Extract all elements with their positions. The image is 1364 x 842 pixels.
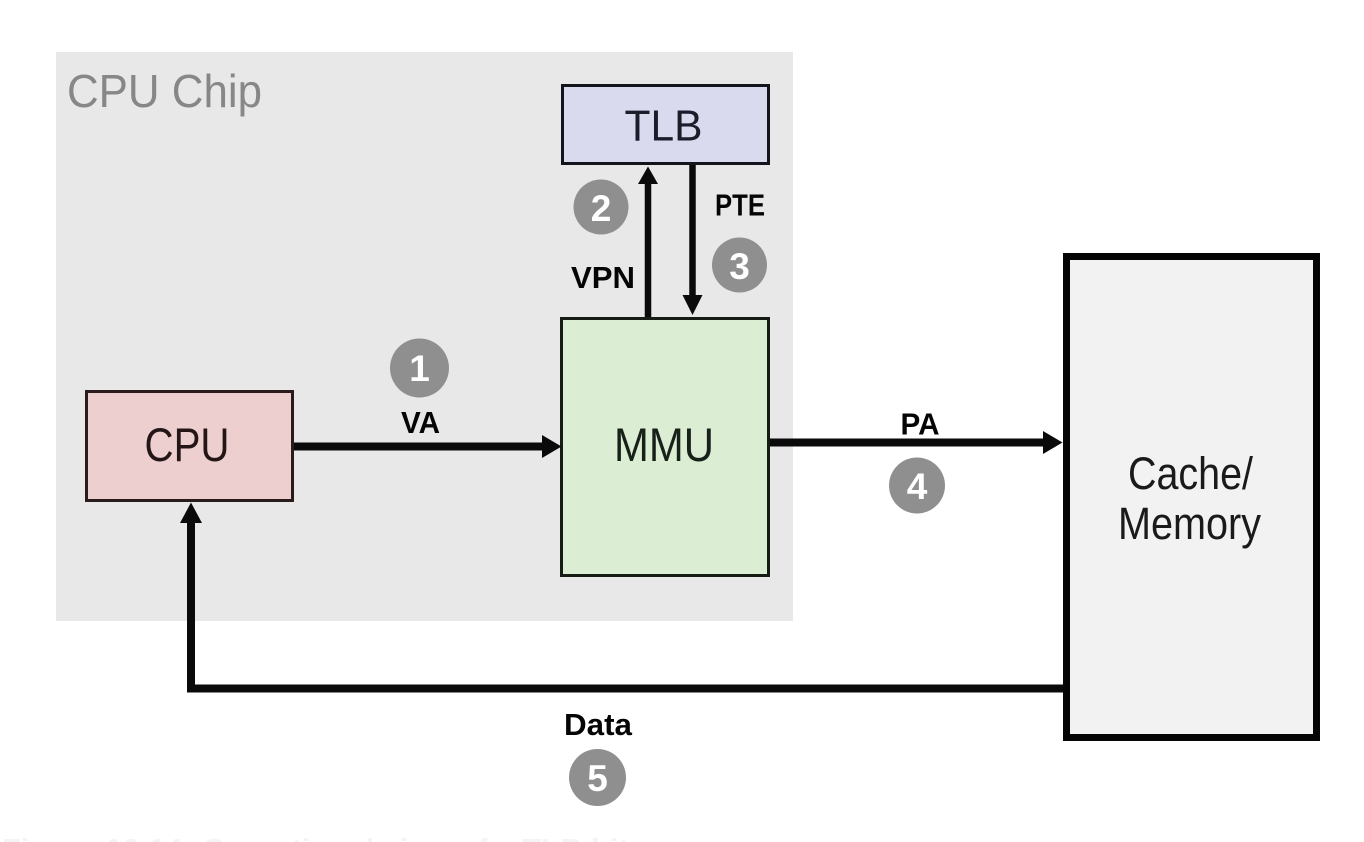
step 5 badge bbox=[569, 749, 626, 806]
MMU box bbox=[562, 319, 769, 576]
TLB box bbox=[563, 86, 769, 164]
step 3 badge bbox=[712, 238, 767, 293]
wire PA: MMU to Cache bbox=[770, 439, 1046, 447]
svg-text:4: 4 bbox=[907, 466, 928, 507]
svg-text:5: 5 bbox=[587, 758, 608, 799]
wire PTE: TLB down to MMU bbox=[689, 165, 696, 296]
svg-text:VA: VA bbox=[401, 405, 440, 440]
svg-text:Cache/: Cache/ bbox=[1128, 448, 1253, 499]
svg-text:MMU: MMU bbox=[614, 418, 714, 471]
svg-text:1: 1 bbox=[409, 348, 430, 389]
svg-text:2: 2 bbox=[591, 188, 612, 229]
wire Data: Cache to CPU bbox=[191, 521, 1063, 689]
step 1 badge bbox=[390, 339, 449, 398]
svg-text:CPU: CPU bbox=[145, 418, 230, 471]
svg-text:Memory: Memory bbox=[1118, 498, 1261, 549]
svg-text:VPN: VPN bbox=[571, 260, 635, 295]
svg-text:CPU Chip: CPU Chip bbox=[67, 65, 262, 117]
CPU chip region bbox=[56, 52, 793, 621]
svg-text:3: 3 bbox=[729, 246, 750, 287]
svg-text:TLB: TLB bbox=[625, 102, 703, 151]
svg-text:PTE: PTE bbox=[715, 188, 765, 223]
wire VPN: MMU up to TLB bbox=[645, 182, 652, 317]
svg-text:Figure 10.14: Operational view: Figure 10.14: Operational view of a TLB … bbox=[2, 832, 638, 842]
svg-text:Data: Data bbox=[564, 707, 633, 742]
step 2 badge bbox=[574, 180, 629, 235]
wire VA: CPU to MMU bbox=[294, 443, 545, 451]
step 4 badge bbox=[889, 458, 945, 514]
Cache/Memory box bbox=[1067, 257, 1317, 738]
svg-text:PA: PA bbox=[901, 407, 940, 442]
CPU box bbox=[87, 392, 293, 501]
